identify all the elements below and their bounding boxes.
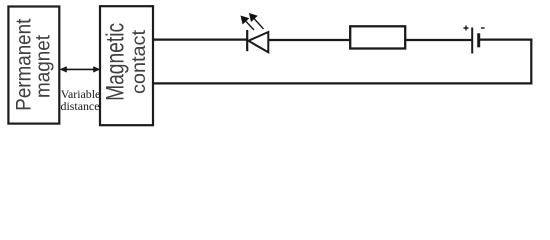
- LED light arrow 1 head: [241, 16, 250, 25]
- wire: right vertical: [530, 39, 532, 85]
- wire: bottom return to contact box: [153, 82, 533, 84]
- magnetic contact box (reed switch): [100, 6, 153, 125]
- svg-text:magnet: magnet: [32, 35, 55, 98]
- wire: resistor to battery: [405, 39, 472, 41]
- wire: contact box to LED cathode: [153, 38, 247, 40]
- wire: LED to resistor: [268, 39, 350, 41]
- battery B1 negative plate (short): [477, 33, 480, 47]
- LED D1 triangle: [248, 32, 268, 52]
- LED light arrow 2 head: [249, 13, 258, 22]
- svg-text:contact: contact: [128, 29, 150, 94]
- permanent magnet box: [8, 7, 59, 124]
- LED D1 cathode bar: [246, 30, 248, 51]
- LED light arrow 1 shaft: [246, 21, 254, 30]
- variable distance arrowhead left: [60, 66, 67, 72]
- battery B1 minus sign: [481, 27, 485, 29]
- svg-text:distance: distance: [61, 99, 100, 113]
- resistor R1 body: [350, 26, 405, 48]
- battery B1 plus sign: [464, 26, 469, 31]
- LED light arrow 2 shaft: [254, 19, 263, 29]
- wire: battery to right corner: [480, 38, 532, 40]
- battery B1 positive plate (long): [471, 28, 473, 54]
- variable distance arrowhead right: [93, 66, 100, 72]
- svg-text:Magnetic: Magnetic: [103, 23, 130, 101]
- variable distance double arrow shaft: [66, 68, 94, 70]
